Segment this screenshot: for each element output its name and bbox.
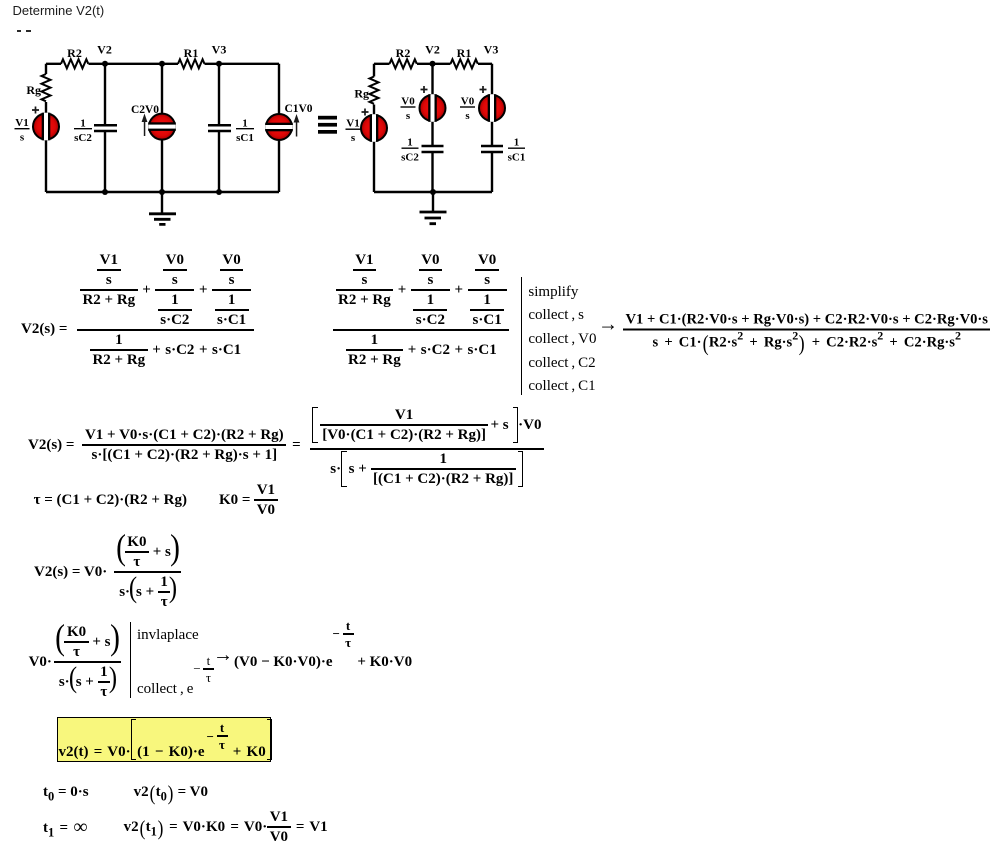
svg-text:V3: V3 [484, 43, 499, 57]
svg-text:1: 1 [80, 118, 86, 130]
value 1/sC2 (left) [74, 118, 92, 145]
plus of V0/s (right branch) [480, 86, 487, 93]
svg-text:Rg: Rg [26, 83, 41, 97]
current source C2V0 [148, 114, 176, 140]
wire: right circuit top [374, 63, 492, 65]
value V0/s (middle) [401, 96, 415, 122]
equation V2(s) repeated with symbolic keywords [333, 270, 509, 388]
arrow of C2V0 [142, 114, 148, 137]
plus of V0/s (middle) [421, 86, 428, 93]
plus of V1/s (right) [362, 109, 369, 116]
svg-text:sC2: sC2 [401, 152, 419, 164]
svg-text:s: s [20, 132, 25, 144]
wire: node V2 branch (cap 1/sC2) [104, 64, 106, 192]
svg-text:V3: V3 [212, 43, 227, 57]
wire: V3 branch (right circuit) [491, 64, 493, 192]
inverse laplace result [213, 646, 412, 678]
svg-text:R2: R2 [396, 46, 411, 60]
svg-text:V0: V0 [461, 96, 475, 108]
node dots left circuit [102, 61, 222, 195]
title [13, 3, 105, 18]
wire: left circuit top [46, 63, 279, 65]
ground (right circuit) [432, 192, 434, 212]
keyword list simplify/collect [521, 277, 596, 395]
svg-text:s: s [465, 110, 470, 122]
right circuit wires [370, 59, 504, 223]
voltage source V0/s (middle, right circuit) [420, 94, 446, 122]
resistor Rg (left) [42, 74, 51, 101]
dash marks [17, 30, 21, 32]
voltage source V1/s (right) [361, 114, 387, 142]
svg-text:sC2: sC2 [74, 132, 92, 144]
svg-text:R1: R1 [457, 46, 472, 60]
svg-text:V2: V2 [97, 43, 112, 57]
value 1/sC1 (right) [508, 137, 526, 164]
svg-text:V1: V1 [15, 117, 28, 129]
capacitor 1/sC2 (left) [94, 125, 117, 131]
wire: V2 branch (right circuit) [431, 64, 433, 192]
tau and K0 definitions [34, 481, 278, 519]
svg-text:V1: V1 [346, 118, 359, 130]
resistor Rg (right) [370, 77, 379, 104]
value V1/s (right) [346, 118, 359, 145]
t0 evaluation [43, 783, 208, 801]
voltage source V0/s (right branch) [479, 94, 505, 122]
highlighted result v2(t) [57, 717, 271, 762]
svg-text:C2V0: C2V0 [131, 104, 159, 116]
capacitor 1/sC2 (right) [422, 146, 444, 152]
svg-text:s: s [406, 110, 411, 122]
value 1/sC1 (left) [236, 118, 254, 145]
wire: C2V0 branch [161, 64, 163, 192]
svg-text:R1: R1 [184, 46, 199, 60]
capacitor 1/sC1 (left) [208, 125, 231, 131]
svg-text:C1V0: C1V0 [284, 103, 312, 115]
equation V2(s) simplified with big brackets [28, 403, 544, 487]
inverse laplace expression [29, 623, 121, 701]
svg-text:sC1: sC1 [508, 152, 526, 164]
voltage source V1/s (left) [33, 113, 59, 141]
svg-text:V0: V0 [401, 96, 415, 108]
wire: node V3 branch (cap 1/sC1) [218, 64, 220, 192]
equation V2(s) definition (admittance form) [21, 270, 254, 388]
wire: right branch C1V0 [278, 64, 280, 192]
svg-text:1: 1 [407, 137, 413, 149]
wire: right circuit left branch [373, 64, 375, 192]
equation V2(s) in tau/K0 form [34, 533, 181, 611]
node dots right circuit [430, 61, 437, 195]
resistor R2 (left) [61, 59, 88, 68]
svg-text:R2: R2 [67, 46, 82, 60]
value V0/s (right branch) [461, 96, 475, 122]
resistor R2 (right) [390, 59, 417, 68]
value 1/sC2 (right) [401, 137, 419, 164]
ground (left circuit) [161, 192, 163, 213]
t1 evaluation [43, 808, 328, 846]
svg-text:1: 1 [514, 137, 520, 149]
symbolic result fraction [598, 311, 990, 352]
resistor R1 (right) [451, 59, 478, 68]
wire: right circuit bottom [374, 191, 492, 193]
keyword list invlaplace/collect [130, 622, 214, 698]
svg-text:V2: V2 [425, 43, 440, 57]
wire: left branch with Rg [45, 64, 47, 192]
plus of V1/s (left) [32, 107, 39, 114]
svg-text:s: s [351, 132, 356, 144]
wire: left circuit bottom [46, 191, 279, 193]
value V1/s (left) [15, 117, 28, 144]
capacitor 1/sC1 (right) [481, 146, 503, 152]
circuit schematics (left original, right equivalent) [0, 0, 560, 240]
svg-text:sC1: sC1 [236, 132, 254, 144]
equivalence symbol [318, 116, 337, 134]
resistor R1 (left) [178, 59, 204, 68]
arrow of C1V0 [294, 114, 300, 137]
svg-text:1: 1 [242, 118, 248, 130]
svg-text:Rg: Rg [354, 87, 369, 101]
current source C1V0 [265, 114, 293, 140]
